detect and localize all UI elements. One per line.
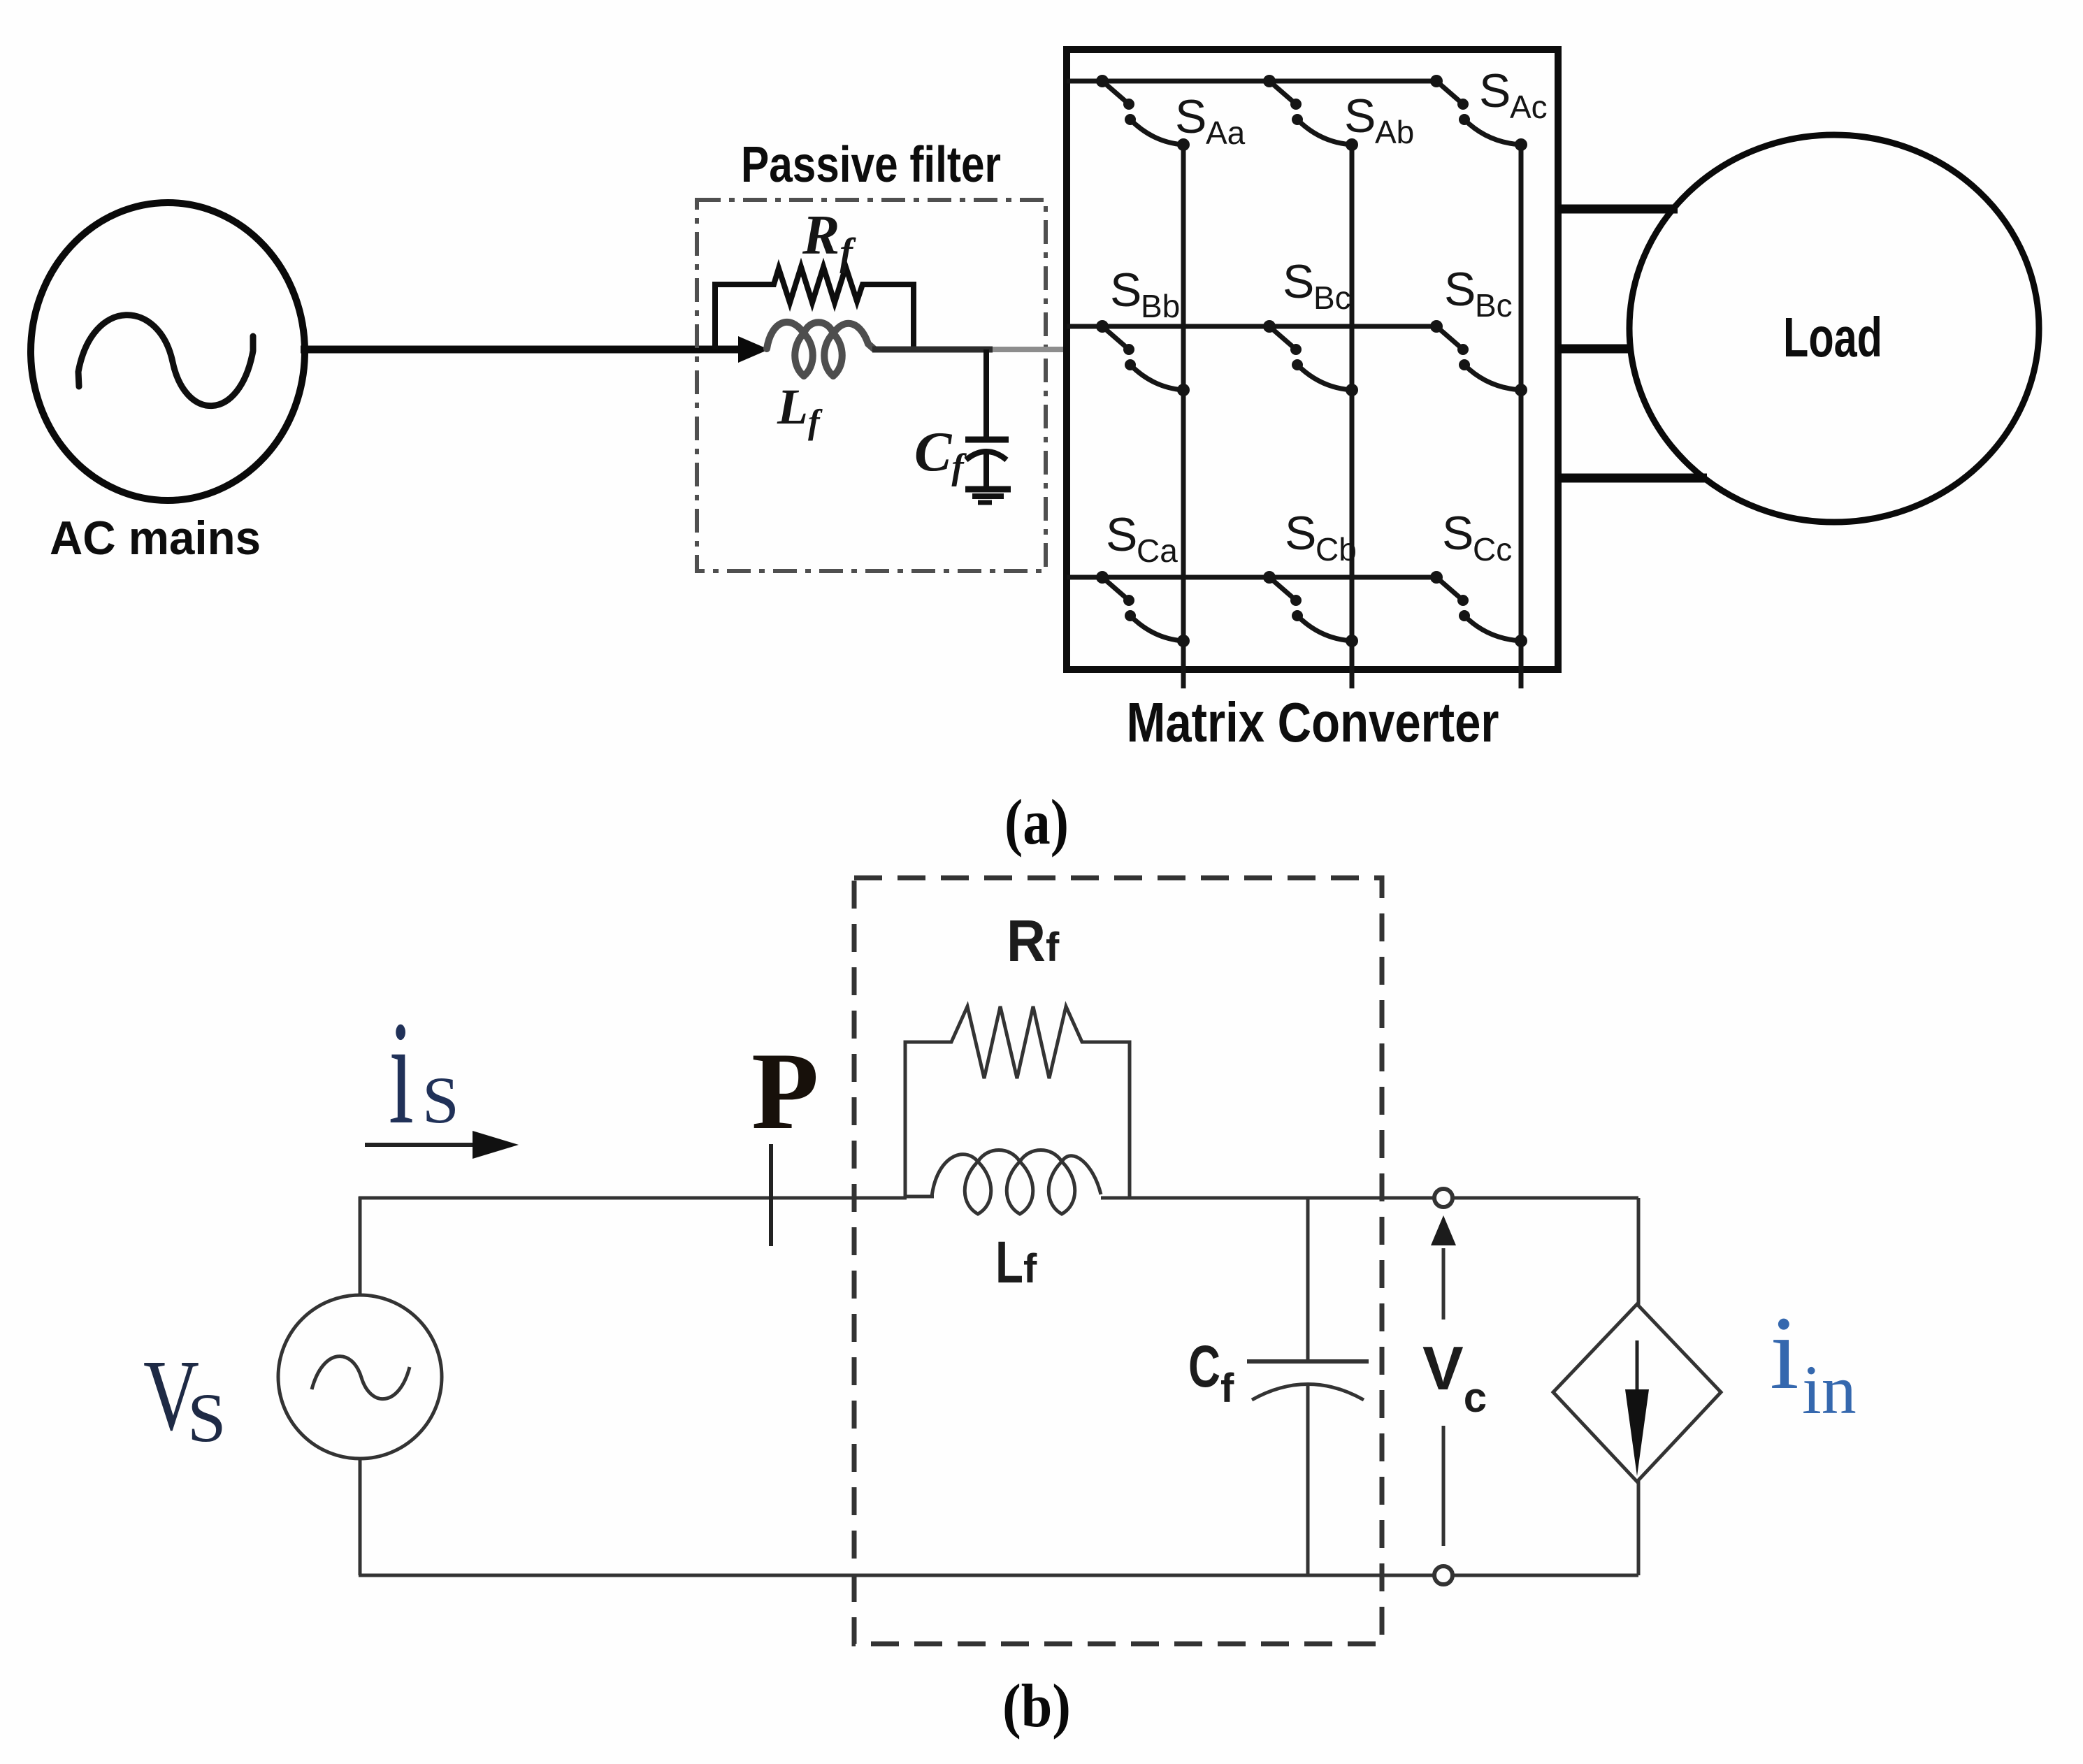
svg-text:Ab: Ab — [1375, 114, 1414, 150]
svg-text:i: i — [389, 990, 414, 1155]
svg-text:Load: Load — [1783, 306, 1882, 368]
svg-text:Bb: Bb — [1141, 288, 1180, 324]
svg-text:Bc: Bc — [1475, 287, 1513, 324]
svg-text:in: in — [1802, 1351, 1857, 1429]
svg-text:S: S — [1285, 507, 1316, 560]
svg-text:Ac: Ac — [1510, 89, 1548, 125]
svg-text:Bc: Bc — [1313, 280, 1351, 316]
svg-text:S: S — [1344, 89, 1376, 143]
svg-text:Ca: Ca — [1137, 533, 1178, 569]
svg-text:S: S — [1110, 263, 1141, 317]
svg-text:Matrix Converter: Matrix Converter — [1127, 691, 1499, 753]
svg-text:i: i — [1770, 1295, 1799, 1411]
svg-text:Aa: Aa — [1206, 115, 1246, 151]
svg-text:S: S — [1175, 90, 1206, 143]
svg-text:S: S — [1106, 508, 1137, 561]
svg-text:S: S — [1283, 255, 1314, 308]
svg-text:AC mains: AC mains — [50, 512, 261, 565]
svg-text:(b): (b) — [1002, 1672, 1071, 1740]
svg-text:S: S — [1479, 64, 1511, 117]
svg-text:S: S — [187, 1379, 226, 1456]
svg-text:Cb: Cb — [1316, 531, 1357, 567]
svg-text:(a): (a) — [1004, 786, 1069, 858]
svg-text:P: P — [751, 1030, 819, 1152]
svg-text:S: S — [1444, 263, 1476, 316]
svg-text:Cc: Cc — [1473, 531, 1512, 567]
svg-text:S: S — [422, 1063, 459, 1137]
svg-text:S: S — [1442, 507, 1473, 560]
svg-text:Passive filter: Passive filter — [741, 137, 1001, 193]
